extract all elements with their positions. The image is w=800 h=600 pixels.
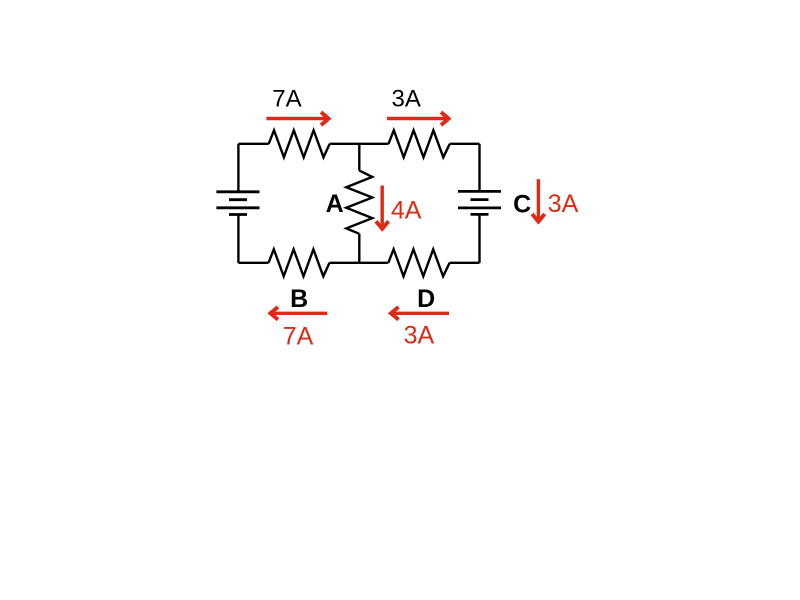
wire top-left segment — [238, 143, 268, 145]
svg-text:4A: 4A — [391, 196, 422, 224]
current arrow 7A (bottom-left, leftward) — [270, 307, 327, 320]
svg-text:A: A — [326, 190, 344, 218]
resistor B (bottom-left) — [269, 249, 330, 276]
wire right vertical upper — [478, 144, 480, 192]
current arrow 7A (top-left, rightward) — [266, 112, 328, 125]
resistor (top-left, 7A branch) — [269, 130, 330, 157]
resistor D (bottom-right) — [388, 249, 449, 276]
current arrow 3A (right of battery C, downward) — [532, 179, 545, 221]
svg-text:D: D — [417, 285, 435, 313]
svg-text:3A: 3A — [404, 322, 435, 350]
svg-text:3A: 3A — [548, 190, 579, 218]
wire center vertical lower — [358, 234, 360, 263]
wire top-right segment — [450, 143, 480, 145]
current arrow 3A (top-right, rightward) — [387, 112, 449, 125]
wire right vertical lower — [478, 214, 480, 262]
wire top-middle segment (through node) — [330, 143, 389, 145]
resistor A (center vertical) — [346, 171, 372, 234]
wire left vertical upper — [237, 144, 239, 192]
battery C (right source) — [458, 191, 501, 214]
wire bottom-left segment — [238, 262, 268, 264]
svg-text:3A: 3A — [392, 85, 421, 112]
svg-text:B: B — [290, 285, 308, 313]
wire bottom-right segment — [450, 262, 480, 264]
current arrow 4A (center, downward) — [376, 186, 389, 229]
battery (left source) — [216, 192, 259, 215]
current arrow 3A (bottom-right, leftward) — [391, 307, 449, 320]
wire left vertical lower — [237, 215, 239, 263]
svg-text:7A: 7A — [283, 323, 314, 351]
resistor (top-right, 3A branch) — [389, 130, 450, 157]
svg-text:C: C — [513, 190, 531, 218]
svg-text:7A: 7A — [272, 86, 301, 113]
wire center vertical upper — [358, 144, 360, 171]
wire bottom-middle segment (through node) — [330, 262, 389, 264]
